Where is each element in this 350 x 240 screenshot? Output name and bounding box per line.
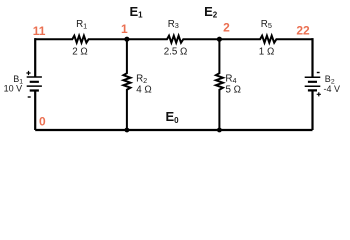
svg-text:4 Ω: 4 Ω bbox=[136, 84, 152, 95]
svg-text:-4 V: -4 V bbox=[324, 84, 341, 94]
svg-text:11: 11 bbox=[33, 24, 46, 38]
svg-text:1: 1 bbox=[121, 22, 128, 36]
svg-text:2: 2 bbox=[223, 21, 230, 35]
svg-text:R3: R3 bbox=[168, 19, 179, 30]
svg-text:5 Ω: 5 Ω bbox=[226, 84, 242, 95]
svg-text:R4: R4 bbox=[225, 74, 236, 85]
svg-text:10 V: 10 V bbox=[4, 84, 23, 94]
svg-text:0: 0 bbox=[39, 115, 46, 129]
svg-text:2.5 Ω: 2.5 Ω bbox=[164, 46, 188, 57]
svg-text:22: 22 bbox=[296, 24, 310, 38]
svg-text:1 Ω: 1 Ω bbox=[259, 46, 275, 57]
svg-text:R1: R1 bbox=[76, 19, 87, 30]
svg-text:2 Ω: 2 Ω bbox=[72, 46, 88, 57]
svg-text:R5: R5 bbox=[261, 19, 272, 30]
svg-text:R2: R2 bbox=[136, 74, 147, 85]
